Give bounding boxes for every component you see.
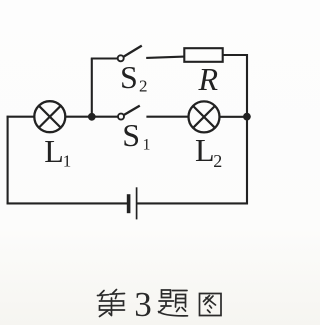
battery BT1 bbox=[129, 187, 137, 219]
caption character 第 bbox=[98, 290, 125, 317]
wire: resistor R to top-right corner bbox=[223, 54, 249, 56]
svg-text:L: L bbox=[195, 132, 215, 168]
svg-text:S: S bbox=[120, 59, 138, 95]
wire: lamp L1 to node A bbox=[65, 116, 92, 118]
wire: right vertical side of loop bbox=[246, 54, 248, 204]
wire: switch S1 fixed contact to lamp L2 bbox=[146, 116, 188, 118]
wire: battery to bottom right corner bbox=[137, 202, 248, 204]
node A (junction dot) bbox=[88, 113, 96, 121]
caption character 图 bbox=[200, 294, 222, 316]
wire: lamp L2 to node B bbox=[220, 116, 248, 118]
svg-text:2: 2 bbox=[213, 151, 222, 171]
lamp L1 bbox=[34, 101, 65, 132]
resistor R bbox=[184, 48, 222, 62]
wire: middle branch from left corner to lamp L1 bbox=[7, 116, 35, 118]
switch S1 bbox=[118, 106, 140, 120]
svg-text:1: 1 bbox=[63, 152, 72, 171]
caption character 题 bbox=[159, 290, 188, 316]
label L1 for lamp L1 bbox=[44, 133, 71, 171]
wire: switch S2 fixed contact to resistor R bbox=[146, 57, 184, 58]
wire: bottom left segment to battery bbox=[7, 202, 127, 204]
switch S2 bbox=[118, 46, 142, 62]
svg-text:L: L bbox=[44, 133, 64, 169]
wire: riser corner to switch S2 pivot bbox=[91, 57, 118, 59]
caption character 3 (text) bbox=[134, 285, 152, 324]
node B (junction dot on right wire) bbox=[243, 113, 251, 121]
label S2 for switch S2 bbox=[120, 59, 148, 95]
svg-text:R: R bbox=[198, 61, 219, 97]
svg-text:1: 1 bbox=[143, 137, 151, 154]
wire: node A to switch S1 pivot bbox=[92, 116, 118, 118]
svg-text:S: S bbox=[122, 117, 140, 153]
label S1 for switch S1 bbox=[122, 117, 150, 153]
svg-text:2: 2 bbox=[139, 77, 148, 96]
caption: 第 3 题图 (figure caption, drawn as strokes) bbox=[98, 285, 222, 324]
wire: left vertical side of loop bbox=[7, 116, 9, 205]
lamp L2 bbox=[189, 101, 220, 132]
svg-text:3: 3 bbox=[134, 285, 152, 324]
wire: vertical riser from node A to switch branch bbox=[91, 59, 93, 118]
label L2 for lamp L2 bbox=[195, 132, 222, 171]
